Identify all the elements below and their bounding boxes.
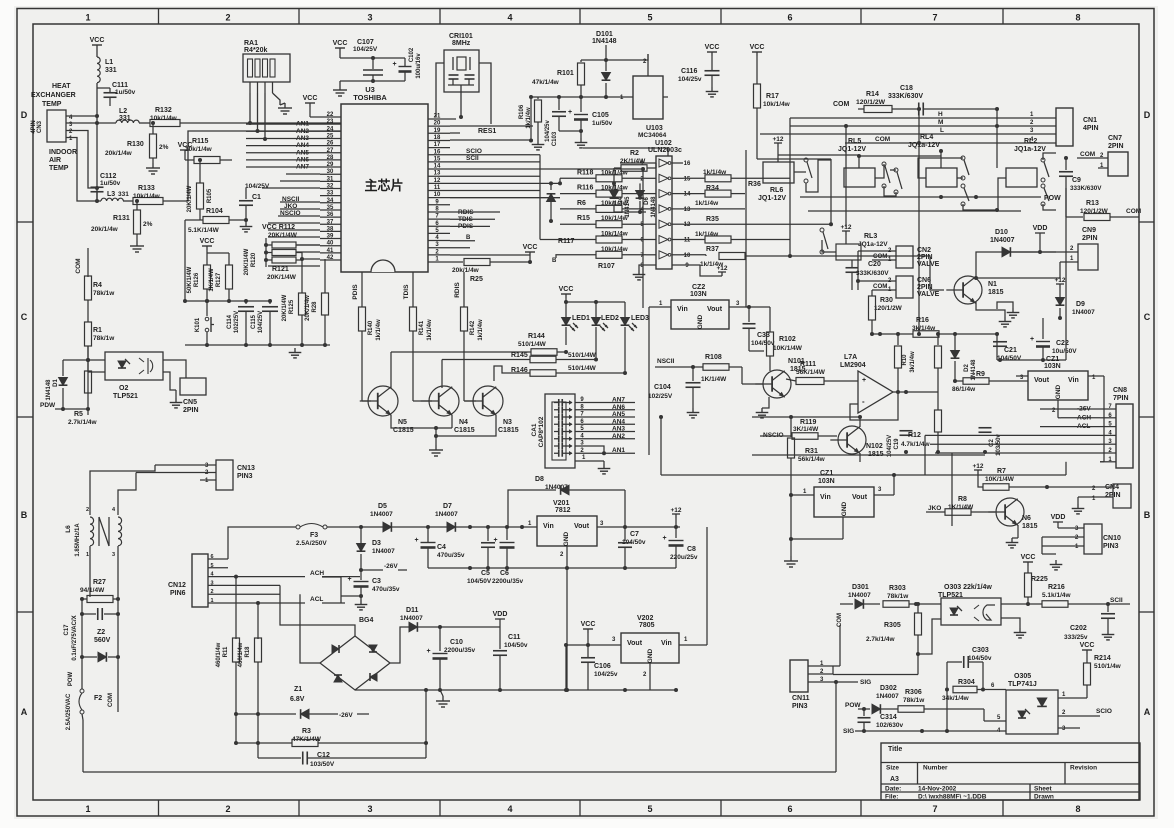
wire (588, 446, 604, 453)
svg-text:TEMP: TEMP (42, 101, 62, 108)
svg-text:1K/1/4W: 1K/1/4W (209, 268, 215, 292)
svg-text:333K/630V: 333K/630V (856, 270, 889, 277)
svg-text:20K/1/4W: 20K/1/4W (244, 248, 250, 275)
svg-text:103N: 103N (690, 291, 707, 298)
svg-text:Z2: Z2 (97, 629, 105, 636)
wire (1043, 317, 1066, 319)
resistor R18b (937, 334, 939, 345)
wire (206, 332, 208, 345)
svg-text:COM: COM (833, 101, 850, 108)
resistor R130 (152, 123, 154, 134)
svg-text:GND: GND (563, 531, 570, 546)
svg-text:50K/1/4W: 50K/1/4W (187, 266, 193, 293)
inductor L1 (97, 57, 100, 83)
svg-text:PIN3: PIN3 (237, 473, 253, 480)
svg-text:C2: C2 (989, 439, 995, 447)
switch contact (820, 228, 824, 232)
svg-text:TLP521: TLP521 (113, 393, 138, 400)
svg-text:86/1/4w: 86/1/4w (952, 386, 976, 393)
svg-text:R214: R214 (1094, 655, 1111, 662)
wire mid rail (997, 359, 1066, 361)
svg-text:R119: R119 (800, 419, 816, 426)
wire V201 gnd down (566, 568, 568, 690)
svg-text:Z1: Z1 (294, 686, 302, 693)
wire (996, 109, 998, 168)
svg-text:AN7: AN7 (612, 397, 625, 404)
svg-text:VDD: VDD (493, 611, 508, 618)
svg-text:R13: R13 (1086, 200, 1099, 207)
svg-text:TEMP: TEMP (49, 165, 69, 172)
svg-text:20K/1/4W: 20K/1/4W (267, 274, 297, 281)
svg-text:104/50v: 104/50v (504, 642, 528, 649)
svg-text:C4: C4 (437, 544, 446, 551)
svg-text:R303: R303 (889, 585, 906, 592)
svg-text:103N: 103N (818, 478, 835, 485)
svg-text:VCC: VCC (200, 238, 215, 245)
svg-text:R111: R111 (800, 361, 816, 368)
svg-text:POW: POW (68, 672, 74, 687)
svg-text:R132: R132 (155, 107, 172, 114)
svg-text:C106: C106 (594, 663, 611, 670)
svg-text:AN1: AN1 (612, 447, 625, 454)
frame tick (298, 9, 300, 25)
svg-text:1N4148: 1N4148 (592, 38, 617, 45)
svg-text:47k/1/4w: 47k/1/4w (532, 79, 560, 86)
connector CN11 PIN3 (790, 660, 808, 692)
svg-text:3k/1/4w: 3k/1/4w (910, 351, 916, 373)
wire gnd rail (12V) (428, 567, 676, 569)
svg-text:VCC: VCC (750, 44, 765, 51)
svg-text:L3: L3 (107, 191, 115, 198)
svg-text:2: 2 (225, 804, 230, 814)
svg-text:R108: R108 (705, 354, 722, 361)
net AN5 (588, 416, 635, 418)
svg-text:N102: N102 (866, 443, 883, 450)
svg-text:14: 14 (434, 164, 441, 170)
wire CZ1 out (1103, 376, 1105, 462)
svg-text:VDD: VDD (1051, 514, 1066, 521)
svg-text:10u/50V: 10u/50V (1052, 348, 1077, 355)
svg-text:+: + (427, 648, 431, 655)
svg-text:RL2: RL2 (1024, 138, 1037, 145)
svg-text:7: 7 (932, 804, 937, 814)
connector CN2 2PIN VALVE (896, 246, 913, 268)
svg-text:R4*20k: R4*20k (244, 47, 267, 54)
svg-text:C1: C1 (252, 194, 261, 201)
wire pin5 (228, 567, 240, 569)
wire opto out (1001, 618, 1020, 628)
frame tick (860, 9, 862, 25)
svg-text:C19: C19 (894, 438, 900, 450)
svg-text:CRI101: CRI101 (449, 33, 473, 40)
wire (832, 666, 834, 674)
resistor R132 (150, 120, 180, 127)
svg-text:BG4: BG4 (359, 617, 374, 624)
svg-text:VCC: VCC (559, 286, 574, 293)
svg-text:1: 1 (85, 804, 90, 814)
svg-text:1: 1 (86, 552, 89, 558)
svg-text:Vout: Vout (707, 306, 723, 313)
wire SIG riser (835, 682, 837, 772)
svg-text:LM2904: LM2904 (840, 362, 866, 369)
svg-text:3K/1/4W: 3K/1/4W (793, 426, 819, 433)
wire (66, 138, 101, 202)
svg-text:78k/1w: 78k/1w (887, 593, 909, 600)
svg-text:COM: COM (108, 693, 114, 707)
svg-text:RDIS: RDIS (454, 282, 461, 298)
svg-text:+12: +12 (716, 265, 727, 272)
wire C9 riser (1065, 188, 1067, 360)
svg-text:D: D (21, 110, 28, 120)
svg-text:A: A (21, 707, 28, 717)
svg-text:R12: R12 (908, 432, 921, 439)
svg-text:331: 331 (119, 115, 131, 122)
svg-text:R131: R131 (113, 215, 130, 222)
svg-text:R305: R305 (884, 622, 901, 629)
svg-text:R11: R11 (223, 646, 229, 657)
svg-text:20k/1/4w: 20k/1/4w (105, 150, 133, 157)
wire (154, 465, 156, 505)
svg-text:AN3: AN3 (612, 426, 625, 433)
svg-text:31: 31 (327, 176, 334, 182)
svg-text:C: C (1144, 312, 1151, 322)
svg-text:B: B (466, 235, 471, 241)
svg-text:2: 2 (210, 589, 213, 595)
junction (95, 114, 99, 118)
svg-text:17: 17 (434, 142, 441, 148)
svg-text:Number: Number (923, 765, 948, 772)
svg-text:26: 26 (327, 141, 334, 147)
svg-text:B: B (552, 258, 557, 264)
wire (163, 372, 176, 390)
svg-text:220u/25v: 220u/25v (670, 554, 698, 561)
svg-text:11: 11 (434, 185, 441, 191)
wire (559, 130, 581, 132)
wire (96, 83, 98, 201)
net AN3 (588, 431, 635, 433)
svg-text:NSCII: NSCII (657, 358, 675, 365)
resistor R18 (257, 603, 259, 639)
svg-text:C303: C303 (972, 647, 989, 654)
ground (711, 87, 713, 92)
svg-text:1815: 1815 (1022, 523, 1038, 530)
svg-text:R37: R37 (706, 246, 719, 253)
wire (864, 730, 990, 732)
svg-text:TOSHIBA: TOSHIBA (353, 93, 387, 102)
svg-text:CN8: CN8 (1113, 387, 1127, 394)
svg-text:A3: A3 (890, 776, 899, 783)
svg-text:R216: R216 (1048, 584, 1065, 591)
svg-text:78k/1w: 78k/1w (93, 335, 115, 342)
svg-text:42: 42 (327, 255, 334, 261)
svg-text:R3: R3 (302, 728, 311, 735)
svg-text:2PIN: 2PIN (183, 407, 199, 414)
net AN4 (588, 423, 635, 425)
svg-text:2200u/35v: 2200u/35v (492, 578, 523, 585)
svg-text:40: 40 (327, 241, 334, 247)
resistor R133 (133, 198, 163, 205)
svg-text:Date:: Date: (885, 786, 901, 793)
svg-text:A: A (1144, 707, 1151, 717)
frame tick (17, 611, 33, 613)
svg-text:5.1K/1/4W: 5.1K/1/4W (188, 227, 220, 234)
svg-text:SCII: SCII (466, 155, 479, 162)
svg-text:D5: D5 (378, 503, 387, 510)
svg-text:RL6: RL6 (770, 187, 783, 194)
svg-text:12: 12 (434, 178, 441, 184)
resistor R131 (136, 201, 138, 210)
svg-text:104/25V: 104/25V (245, 183, 270, 190)
svg-text:R28: R28 (312, 301, 318, 313)
svg-text:27: 27 (327, 148, 334, 154)
resistor R4 (85, 276, 92, 300)
ground (762, 397, 769, 408)
wire pin3 (450, 247, 470, 249)
svg-text:1N4007: 1N4007 (848, 592, 871, 599)
svg-text:GND: GND (647, 648, 654, 663)
svg-text:COM: COM (1080, 151, 1095, 158)
svg-text:R102: R102 (779, 336, 796, 343)
wire (249, 82, 251, 93)
svg-text:JQ1-12V: JQ1-12V (838, 146, 866, 153)
svg-text:VALVE: VALVE (917, 291, 940, 298)
svg-text:4PIN: 4PIN (1083, 125, 1099, 132)
ground (997, 302, 1013, 309)
svg-text:R8: R8 (958, 496, 967, 503)
svg-text:1815: 1815 (988, 289, 1004, 296)
svg-text:11: 11 (684, 238, 691, 244)
svg-text:RES1: RES1 (478, 128, 496, 135)
svg-text:1N4007: 1N4007 (876, 693, 899, 700)
svg-text:-: - (862, 397, 865, 406)
svg-text:C1815: C1815 (498, 427, 519, 434)
resistor R127 (226, 265, 233, 289)
svg-text:AN5: AN5 (612, 411, 625, 418)
wire (790, 495, 792, 556)
wire (300, 594, 320, 663)
svg-text:+12: +12 (972, 463, 983, 470)
svg-text:2.7k/1/4w: 2.7k/1/4w (68, 419, 97, 426)
wire (559, 700, 561, 745)
svg-text:H: H (938, 111, 943, 118)
svg-text:Drawn: Drawn (1034, 794, 1054, 801)
ground (360, 600, 362, 605)
svg-text:7PIN: 7PIN (1113, 395, 1129, 402)
wire bus bottom (185, 344, 330, 346)
wire (946, 662, 948, 731)
wire (614, 211, 646, 213)
svg-text:2.5A/250VAC: 2.5A/250VAC (66, 693, 72, 730)
svg-text:4: 4 (507, 804, 512, 814)
svg-text:2PIN: 2PIN (1082, 235, 1098, 242)
wire +12 out (680, 526, 707, 528)
svg-text:10k/1/4w: 10k/1/4w (763, 101, 791, 108)
wire big loop (642, 169, 644, 308)
svg-text:Size: Size (886, 765, 899, 772)
wire (1041, 537, 1043, 560)
wire bottom COM rail (83, 771, 836, 773)
svg-text:20K/1/4W: 20K/1/4W (268, 232, 298, 239)
svg-text:R142: R142 (470, 320, 476, 335)
wire pin13 (450, 175, 540, 177)
svg-text:7805: 7805 (639, 622, 655, 629)
svg-text:RA1: RA1 (244, 40, 258, 47)
frame tick (439, 9, 441, 25)
svg-text:R225: R225 (1031, 576, 1048, 583)
svg-text:CZ2: CZ2 (692, 284, 705, 291)
wire (556, 255, 560, 258)
svg-text:N1: N1 (988, 281, 997, 288)
resistor R105 (197, 183, 204, 209)
svg-text:D:\ \wxh88MF\ ~1.DDB: D:\ \wxh88MF\ ~1.DDB (918, 794, 987, 801)
svg-text:+: + (1030, 336, 1034, 343)
frame tick (579, 9, 581, 25)
wire (339, 52, 341, 58)
svg-text:104/25V: 104/25V (887, 435, 893, 457)
svg-text:D9: D9 (1076, 301, 1085, 308)
wire pin4 (450, 240, 475, 242)
wire (859, 155, 941, 157)
svg-text:RL4: RL4 (920, 134, 933, 141)
svg-text:N6: N6 (1022, 515, 1031, 522)
wire pin10 (450, 197, 560, 199)
svg-text:GND: GND (1055, 384, 1062, 399)
svg-text:RL5: RL5 (848, 138, 861, 145)
svg-text:102/25V: 102/25V (648, 393, 673, 400)
svg-text:10K/1/4W: 10K/1/4W (773, 345, 803, 352)
ground (692, 408, 694, 413)
wire ACH link (322, 576, 341, 578)
svg-text:AN6: AN6 (612, 404, 625, 411)
svg-text:Vout: Vout (852, 494, 868, 501)
svg-text:N3: N3 (503, 419, 512, 426)
power +12 (CN2) (845, 126, 847, 227)
svg-text:510/1/4W: 510/1/4W (568, 352, 597, 359)
svg-text:331: 331 (118, 191, 129, 198)
svg-text:R15: R15 (577, 215, 590, 222)
svg-text:3: 3 (367, 804, 372, 814)
svg-text:ACH: ACH (310, 570, 324, 577)
svg-text:1u/50v: 1u/50v (592, 120, 613, 127)
svg-text:File:: File: (885, 794, 898, 801)
svg-text:R14: R14 (866, 91, 879, 98)
svg-text:COM: COM (75, 258, 82, 273)
resistor R11 (235, 577, 237, 639)
wire CZ2 vout riser (746, 150, 749, 307)
svg-text:19: 19 (434, 128, 441, 134)
wire (606, 54, 648, 60)
svg-text:CN10: CN10 (1103, 535, 1121, 542)
svg-text:104/25v: 104/25v (678, 76, 702, 83)
ground (294, 348, 296, 353)
svg-text:20k/1/4w: 20k/1/4w (91, 226, 119, 233)
transistor N3 C1815 (473, 386, 503, 416)
wire relay routing (806, 160, 831, 192)
junction (917, 141, 921, 145)
wire LED rail (566, 301, 625, 303)
svg-text:1u/50v: 1u/50v (115, 89, 136, 96)
svg-text:41: 41 (327, 248, 334, 254)
wire op-amp feedback (850, 392, 898, 420)
svg-text:EXCHANGER: EXCHANGER (31, 92, 76, 99)
net AN1 (588, 452, 635, 454)
wire (88, 371, 105, 373)
svg-text:CN1: CN1 (1083, 117, 1097, 124)
ground (175, 390, 177, 398)
svg-text:R2: R2 (630, 150, 639, 157)
svg-text:R126: R126 (194, 272, 200, 287)
ground (284, 103, 286, 108)
svg-text:5: 5 (647, 13, 652, 23)
svg-text:5: 5 (210, 563, 213, 569)
capacitor C112 (91, 186, 104, 188)
svg-text:510/1/4w: 510/1/4w (1094, 663, 1122, 670)
svg-text:C33: C33 (757, 332, 770, 339)
svg-text:D302: D302 (880, 685, 897, 692)
wire pin19 (450, 132, 460, 134)
wire (249, 93, 251, 123)
svg-text:R31: R31 (805, 448, 818, 455)
svg-text:1: 1 (210, 598, 213, 604)
svg-text:D6: D6 (644, 197, 650, 205)
svg-text:37: 37 (327, 219, 334, 225)
svg-text:+: + (415, 537, 419, 544)
svg-text:D3: D3 (372, 540, 381, 547)
svg-text:R5: R5 (74, 411, 83, 418)
frame tick (158, 9, 160, 25)
svg-text:331: 331 (105, 67, 117, 74)
svg-text:CA1: CA1 (531, 423, 538, 436)
resistor R28 (324, 259, 326, 293)
frame tick (17, 416, 33, 418)
svg-text:7812: 7812 (555, 507, 571, 514)
svg-text:SCIO: SCIO (466, 148, 482, 155)
svg-text:LED2: LED2 (601, 315, 619, 322)
svg-text:20K/1/4W: 20K/1/4W (187, 185, 193, 212)
svg-text:104/50v: 104/50v (751, 340, 775, 347)
svg-text:1N4007: 1N4007 (1072, 309, 1095, 316)
svg-text:O303 22k/1/4w: O303 22k/1/4w (944, 584, 992, 591)
svg-text:C202: C202 (1070, 625, 1087, 632)
resistor R140 (361, 272, 363, 307)
svg-text:+: + (568, 109, 572, 116)
resistor R142 (463, 272, 465, 307)
svg-text:1N4007: 1N4007 (372, 548, 395, 555)
resistor R25 (450, 261, 463, 263)
svg-text:C102: C102 (409, 47, 415, 62)
svg-text:4: 4 (507, 13, 512, 23)
svg-text:JQ1a-12V: JQ1a-12V (1014, 146, 1046, 153)
svg-text:104/25V: 104/25V (258, 311, 264, 333)
wire (997, 317, 1043, 319)
transistor N4 C1815 (429, 386, 459, 416)
svg-text:C5: C5 (481, 570, 490, 577)
svg-text:20K/1/4W: 20K/1/4W (282, 294, 288, 321)
svg-text:C115: C115 (251, 314, 257, 329)
svg-text:10: 10 (434, 192, 441, 198)
connector CN12 PIN6 (192, 554, 208, 607)
wire (185, 300, 270, 302)
wire (460, 85, 462, 117)
svg-text:C: C (21, 312, 28, 322)
svg-text:120/1/2W: 120/1/2W (874, 305, 903, 312)
svg-text:K101: K101 (195, 317, 201, 332)
svg-text:C22: C22 (1056, 340, 1069, 347)
resistor R125 (299, 293, 306, 315)
wire opto collector (1001, 603, 1028, 605)
svg-text:2.5A/250V: 2.5A/250V (296, 540, 327, 547)
wire U102 pin2 link (559, 178, 561, 183)
